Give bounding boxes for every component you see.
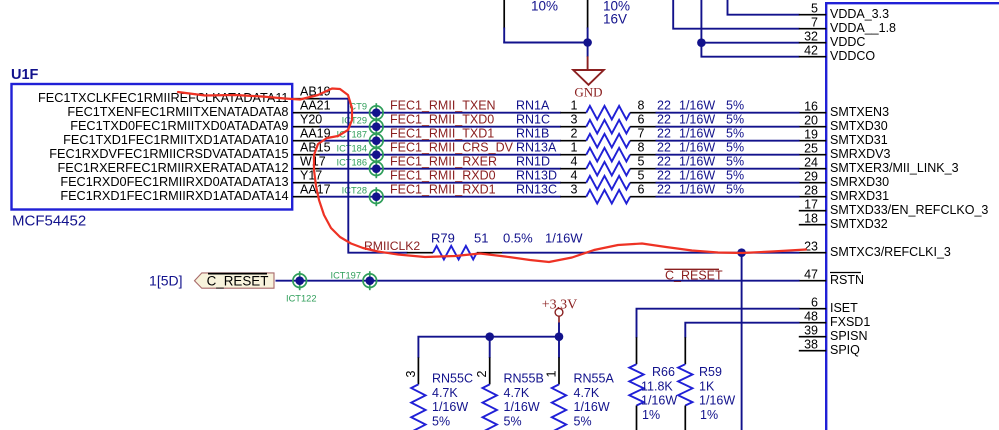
svg-text:7: 7 xyxy=(638,127,645,141)
svg-text:SMTXD32: SMTXD32 xyxy=(830,217,888,231)
svg-text:ICT197: ICT197 xyxy=(331,270,362,280)
svg-text:FEC1_RMII_RXD1: FEC1_RMII_RXD1 xyxy=(390,183,496,197)
U1F reference designator xyxy=(11,67,39,83)
wire net FEC1_RMII_RXD0 xyxy=(320,182,562,184)
svg-text:5: 5 xyxy=(638,169,645,183)
svg-text:22: 22 xyxy=(657,155,671,169)
svg-text:22: 22 xyxy=(657,169,671,183)
svg-text:C_RESET: C_RESET xyxy=(207,274,269,289)
resistor RN1D name label xyxy=(516,155,550,169)
test point ICT28 xyxy=(342,186,383,207)
resistor RN13C name label xyxy=(516,183,557,197)
junction xyxy=(583,38,592,47)
svg-text:1K: 1K xyxy=(699,380,715,394)
net label RMIICLK2 xyxy=(364,239,420,253)
pin 18 SMTXD32 xyxy=(799,212,888,232)
annotation red highlight squiggle xyxy=(178,89,806,263)
U1F pin Y20 FEC1TXD0FEC1RMIITXD0ATADATA9 xyxy=(70,113,322,133)
pin 19 SMTXD31 xyxy=(799,128,888,148)
svg-text:FEC1RXD0FEC1RMIIRXD0ATADATA13: FEC1RXD0FEC1RMIIRXD0ATADATA13 xyxy=(60,175,288,189)
svg-text:VDDC: VDDC xyxy=(830,35,865,49)
test point ICT9 xyxy=(347,102,383,123)
wire net FEC1_RMII_TXD0 xyxy=(320,126,562,128)
resistor RN1D value 22 1/16W 5% xyxy=(657,155,744,169)
svg-text:FEC1_RMII_TXD0: FEC1_RMII_TXD0 xyxy=(390,113,494,127)
svg-text:SMRXD31: SMRXD31 xyxy=(830,189,889,203)
svg-text:5%: 5% xyxy=(726,113,744,127)
svg-text:ICT184: ICT184 xyxy=(337,144,368,154)
pin 16 SMTXEN3 xyxy=(799,100,889,120)
svg-text:5: 5 xyxy=(811,2,818,16)
svg-text:SMTXEN3: SMTXEN3 xyxy=(830,105,889,119)
resistor R66 labels xyxy=(641,365,677,422)
svg-text:GND: GND xyxy=(574,85,602,100)
svg-text:FEC1_RMII_RXD0: FEC1_RMII_RXD0 xyxy=(390,169,496,183)
svg-text:5%: 5% xyxy=(726,127,744,141)
wire xyxy=(656,140,800,142)
svg-text:1[5D]: 1[5D] xyxy=(149,273,182,289)
wire net VDDA__1.8 xyxy=(673,0,799,29)
wire xyxy=(558,323,560,337)
wire xyxy=(418,337,559,358)
svg-text:SMTXD30: SMTXD30 xyxy=(830,119,888,133)
wire xyxy=(741,253,743,430)
svg-text:5%: 5% xyxy=(504,415,522,429)
svg-text:4: 4 xyxy=(571,169,578,183)
resistor RN55A labels xyxy=(574,372,615,429)
svg-text:5%: 5% xyxy=(726,183,744,197)
resistor RN13A value 22 1/16W 5% xyxy=(657,141,744,155)
net label FEC1_RMII_RXER xyxy=(390,155,497,169)
resistor R79 labels R79 51 0.5% 1/16W xyxy=(431,231,583,246)
svg-text:6: 6 xyxy=(638,183,645,197)
svg-text:Y20: Y20 xyxy=(300,113,322,127)
IC U? (PHY) box xyxy=(826,3,999,430)
svg-text:3: 3 xyxy=(404,371,418,378)
pin 42 VDDCO xyxy=(799,44,876,64)
svg-text:5%: 5% xyxy=(574,415,592,429)
U1F pin Y17 FEC1RXD0FEC1RMIIRXD0ATADATA13 xyxy=(60,169,322,189)
pin 29 SMRXD30 xyxy=(799,170,889,190)
svg-text:11.8K: 11.8K xyxy=(641,380,673,394)
svg-text:6: 6 xyxy=(811,296,818,310)
pin 32 VDDC xyxy=(799,30,866,50)
svg-text:RN1C: RN1C xyxy=(516,113,550,127)
svg-text:VDDA_3.3: VDDA_3.3 xyxy=(830,7,889,21)
svg-text:AA21: AA21 xyxy=(300,99,331,113)
wire net FEC1_RMII_CRS_DV xyxy=(320,154,562,156)
component U1F box xyxy=(12,84,293,210)
test point ICT197 xyxy=(331,270,377,290)
resistor RN55C (pin 3) xyxy=(404,357,426,430)
capacitor C? left value label 10% xyxy=(531,0,558,14)
svg-text:7: 7 xyxy=(811,16,818,30)
capacitor C? right value label 10% 16V xyxy=(603,0,630,27)
test point ICT186 xyxy=(337,158,384,179)
svg-text:ICT28: ICT28 xyxy=(342,186,367,196)
svg-text:2: 2 xyxy=(571,127,578,141)
resistor RN1A name label xyxy=(516,99,550,113)
svg-text:1/16W: 1/16W xyxy=(574,400,610,414)
pin 38 SPIQ xyxy=(799,338,860,358)
net label C_RESET xyxy=(665,269,724,283)
junction xyxy=(737,248,746,257)
junction xyxy=(485,332,494,341)
U1F pin AB15 FEC1RXDVFEC1RMIICRSDVATADATA15 xyxy=(49,141,330,161)
svg-text:RN13C: RN13C xyxy=(516,183,557,197)
pin 7 VDDA__1.8 xyxy=(799,16,896,36)
svg-text:51: 51 xyxy=(474,231,488,246)
resistor RN1B name label xyxy=(516,127,549,141)
svg-text:C_RESET: C_RESET xyxy=(665,269,723,283)
svg-text:19: 19 xyxy=(804,128,818,142)
svg-text:RN1D: RN1D xyxy=(516,155,550,169)
junction xyxy=(555,332,564,341)
svg-text:8: 8 xyxy=(638,141,645,155)
svg-text:RN55B: RN55B xyxy=(504,372,544,386)
svg-text:FEC1_RMII_RXER: FEC1_RMII_RXER xyxy=(390,155,497,169)
svg-text:FEC1TXD0FEC1RMIITXD0ATADATA9: FEC1TXD0FEC1RMIITXD0ATADATA9 xyxy=(70,119,288,133)
resistor RN1A xyxy=(560,99,656,120)
net label FEC1_RMII_TXD0 xyxy=(390,113,494,127)
svg-text:RN1B: RN1B xyxy=(516,127,549,141)
svg-text:5%: 5% xyxy=(726,169,744,183)
pin 6 ISET xyxy=(799,296,858,316)
svg-text:FEC1RXERFEC1RMIIRXERATADATA12: FEC1RXERFEC1RMIIRXERATADATA12 xyxy=(58,161,289,175)
resistor R79 xyxy=(407,246,503,260)
wire xyxy=(656,196,800,198)
svg-text:1: 1 xyxy=(571,99,578,113)
pin 47 RSTN xyxy=(799,268,864,288)
U1F pin AA17 FEC1RXD1FEC1RMIIRXD1ATADATA14 xyxy=(60,183,330,203)
svg-text:2: 2 xyxy=(475,371,489,378)
svg-text:4: 4 xyxy=(571,155,578,169)
wire xyxy=(656,112,800,114)
resistor RN55A (pin 1) xyxy=(545,357,567,430)
svg-text:1: 1 xyxy=(545,371,559,378)
svg-text:4.7K: 4.7K xyxy=(432,386,458,400)
svg-text:10%: 10% xyxy=(531,0,558,14)
U1F pin W17 FEC1RXERFEC1RMIIRXERATADATA12 xyxy=(58,155,326,175)
test point ICT122 xyxy=(286,271,317,303)
resistor RN13A name label xyxy=(516,141,557,155)
resistor RN1A value 22 1/16W 5% xyxy=(657,99,744,113)
wire net C_RESET xyxy=(276,280,800,282)
svg-text:R66: R66 xyxy=(652,365,675,379)
U1F pin AA21 FEC1TXENFEC1RMIITXENATADATA8 xyxy=(67,99,330,119)
svg-text:24: 24 xyxy=(804,156,818,170)
svg-text:1/16W: 1/16W xyxy=(641,394,677,408)
resistor R59 xyxy=(678,337,692,430)
wire xyxy=(502,252,800,254)
svg-text:3: 3 xyxy=(571,113,578,127)
U1F part value MCF54452 xyxy=(12,213,86,230)
svg-text:MCF54452: MCF54452 xyxy=(12,213,86,230)
resistor RN1D xyxy=(560,155,656,176)
wire net FEC1_RMII_RXER xyxy=(320,168,562,170)
svg-text:ICT29: ICT29 xyxy=(342,116,367,126)
svg-text:48: 48 xyxy=(804,310,818,324)
net label FEC1_RMII_TXD1 xyxy=(390,127,494,141)
svg-text:22: 22 xyxy=(657,99,671,113)
wire xyxy=(656,182,800,184)
svg-text:17: 17 xyxy=(804,198,818,212)
resistor R59 labels xyxy=(699,365,735,422)
svg-text:28: 28 xyxy=(804,184,818,198)
svg-text:FEC1RXDVFEC1RMIICRSDVATADATA15: FEC1RXDVFEC1RMIICRSDVATADATA15 xyxy=(49,147,288,161)
svg-text:1/16W: 1/16W xyxy=(432,400,468,414)
pin 48 FXSD1 xyxy=(799,310,871,330)
U1F pin AB19 FEC1TXCLKFEC1RMIIREFCLKATADATA11 xyxy=(38,85,331,105)
svg-text:FEC1TXD1FEC1RMIITXD1ATADATA10: FEC1TXD1FEC1RMIITXD1ATADATA10 xyxy=(63,133,288,147)
svg-text:8: 8 xyxy=(638,99,645,113)
svg-text:RSTN: RSTN xyxy=(830,273,864,287)
svg-text:32: 32 xyxy=(804,30,818,44)
resistor RN13D name label xyxy=(516,169,557,183)
svg-text:RN1A: RN1A xyxy=(516,99,550,113)
svg-text:16V: 16V xyxy=(603,12,627,27)
resistor RN55B labels xyxy=(504,372,544,429)
pin 24 SMTXER3/MII_LINK_3 xyxy=(799,156,959,176)
resistor RN13C xyxy=(560,183,656,204)
resistor RN13D value 22 1/16W 5% xyxy=(657,169,744,183)
svg-text:5%: 5% xyxy=(726,99,744,113)
svg-text:1%: 1% xyxy=(700,408,718,422)
svg-text:SMTXD33/EN_REFCLKO_3: SMTXD33/EN_REFCLKO_3 xyxy=(830,203,988,217)
wire net RMIICLK2 xyxy=(320,99,408,253)
svg-text:6: 6 xyxy=(638,113,645,127)
wire xyxy=(503,28,505,44)
svg-text:RN55A: RN55A xyxy=(574,372,615,386)
net label FEC1_RMII_RXD0 xyxy=(390,169,496,183)
resistor RN1C xyxy=(560,113,656,134)
resistor RN13D xyxy=(560,169,656,190)
svg-text:SMTXC3/REFCLKI_3: SMTXC3/REFCLKI_3 xyxy=(830,245,951,259)
svg-text:22: 22 xyxy=(657,113,671,127)
wire xyxy=(701,42,799,44)
resistor RN1B xyxy=(560,127,656,148)
svg-text:42: 42 xyxy=(804,44,818,58)
wire xyxy=(558,337,560,358)
svg-text:SMTXD31: SMTXD31 xyxy=(830,133,888,147)
svg-text:18: 18 xyxy=(804,212,818,226)
resistor R66 xyxy=(629,337,643,430)
svg-text:47: 47 xyxy=(804,268,818,282)
svg-text:RN13A: RN13A xyxy=(516,141,557,155)
wire xyxy=(587,28,589,57)
off-page connector C_RESET xyxy=(195,273,275,289)
svg-text:1/16W: 1/16W xyxy=(504,400,540,414)
svg-text:1/16W: 1/16W xyxy=(545,231,583,246)
svg-text:FEC1_RMII_TXEN: FEC1_RMII_TXEN xyxy=(390,99,496,113)
svg-text:1/16W: 1/16W xyxy=(679,169,715,183)
svg-text:1: 1 xyxy=(571,141,578,155)
svg-text:1/16W: 1/16W xyxy=(679,183,715,197)
resistor RN55B (pin 2) xyxy=(475,357,497,430)
svg-text:SPISN: SPISN xyxy=(830,329,868,343)
wire net VDDA_3.3 xyxy=(728,0,800,15)
svg-text:FXSD1: FXSD1 xyxy=(830,315,870,329)
test point ICT187 xyxy=(337,130,384,151)
svg-text:4.7K: 4.7K xyxy=(574,386,600,400)
wire net FEC1_RMII_TXD1 xyxy=(320,140,562,142)
svg-text:U1F: U1F xyxy=(11,67,39,83)
svg-text:SMTXER3/MII_LINK_3: SMTXER3/MII_LINK_3 xyxy=(830,161,959,175)
svg-text:FEC1RXD1FEC1RMIIRXD1ATADATA14: FEC1RXD1FEC1RMIIRXD1ATADATA14 xyxy=(60,189,288,203)
svg-text:SMRXD30: SMRXD30 xyxy=(830,175,889,189)
svg-text:RN55C: RN55C xyxy=(432,372,473,386)
pin 20 SMTXD30 xyxy=(799,114,888,134)
capacitor C? right pin (cropped) xyxy=(587,0,589,29)
test point ICT184 xyxy=(337,144,384,165)
svg-text:1/16W: 1/16W xyxy=(699,394,735,408)
svg-text:Y17: Y17 xyxy=(300,169,322,183)
svg-text:VDDCO: VDDCO xyxy=(830,49,875,63)
svg-text:1/16W: 1/16W xyxy=(679,127,715,141)
svg-text:R79: R79 xyxy=(431,231,455,246)
svg-text:ICT122: ICT122 xyxy=(286,294,317,304)
U1F pin AA19 FEC1TXD1FEC1RMIITXD1ATADATA10 xyxy=(63,127,331,147)
wire xyxy=(656,168,800,170)
test point ICT29 xyxy=(342,116,383,137)
wire xyxy=(503,42,588,44)
svg-text:38: 38 xyxy=(804,338,818,352)
svg-text:29: 29 xyxy=(804,170,818,184)
resistor RN1B value 22 1/16W 5% xyxy=(657,127,744,141)
svg-text:16: 16 xyxy=(804,100,818,114)
wire xyxy=(656,126,800,128)
ground GND xyxy=(573,56,604,99)
resistor RN1C value 22 1/16W 5% xyxy=(657,113,744,127)
wire net VDDC/VDDCO xyxy=(701,0,799,57)
svg-text:1/16W: 1/16W xyxy=(679,113,715,127)
wire xyxy=(489,337,491,358)
pin 28 SMRXD31 xyxy=(799,184,889,204)
svg-text:3: 3 xyxy=(571,183,578,197)
net label FEC1_RMII_RXD1 xyxy=(390,183,496,197)
wire xyxy=(656,154,800,156)
svg-text:0.5%: 0.5% xyxy=(503,231,533,246)
resistor RN55C labels xyxy=(432,372,473,429)
svg-text:22: 22 xyxy=(657,141,671,155)
svg-text:SPIQ: SPIQ xyxy=(830,343,860,357)
svg-text:22: 22 xyxy=(657,183,671,197)
svg-text:ICT186: ICT186 xyxy=(337,158,368,168)
resistor RN13C value 22 1/16W 5% xyxy=(657,183,744,197)
svg-text:1/16W: 1/16W xyxy=(679,99,715,113)
wire net FEC1_RMII_RXD1 xyxy=(320,196,562,198)
off-page reference 1[5D] xyxy=(149,273,182,289)
svg-text:SMRXDV3: SMRXDV3 xyxy=(830,147,890,161)
svg-text:20: 20 xyxy=(804,114,818,128)
svg-text:23: 23 xyxy=(804,240,818,254)
svg-text:5: 5 xyxy=(638,155,645,169)
net label FEC1_RMII_CRS_DV xyxy=(390,141,514,155)
pin 39 SPISN xyxy=(799,324,868,344)
wire net FEC1_RMII_TXEN xyxy=(320,112,562,114)
resistor RN1C name label xyxy=(516,113,550,127)
svg-text:VDDA__1.8: VDDA__1.8 xyxy=(830,21,896,35)
wire net ISET xyxy=(637,309,800,338)
resistor RN13A xyxy=(560,141,656,162)
svg-text:4.7K: 4.7K xyxy=(504,386,530,400)
power +3.3V xyxy=(542,297,578,323)
svg-text:39: 39 xyxy=(804,324,818,338)
svg-text:5%: 5% xyxy=(726,155,744,169)
pin 17 SMTXD33/EN_REFCLKO_3 xyxy=(799,198,989,218)
svg-text:FEC1_RMII_TXD1: FEC1_RMII_TXD1 xyxy=(390,127,494,141)
svg-text:1/16W: 1/16W xyxy=(679,155,715,169)
capacitor C? left pin (cropped) xyxy=(503,0,505,29)
svg-text:W17: W17 xyxy=(300,155,326,169)
svg-text:22: 22 xyxy=(657,127,671,141)
svg-text:1/16W: 1/16W xyxy=(679,141,715,155)
svg-text:RN13D: RN13D xyxy=(516,169,557,183)
pin 5 VDDA_3.3 xyxy=(799,2,889,22)
svg-text:1%: 1% xyxy=(642,408,660,422)
junction xyxy=(697,38,706,47)
svg-text:ISET: ISET xyxy=(830,301,858,315)
wire net FXSD1 xyxy=(685,323,799,338)
svg-text:5%: 5% xyxy=(432,415,450,429)
svg-text:FEC1TXENFEC1RMIITXENATADATA8: FEC1TXENFEC1RMIITXENATADATA8 xyxy=(67,105,288,119)
pin 23 SMTXC3/REFCLKI_3 xyxy=(799,240,951,260)
svg-text:25: 25 xyxy=(804,142,818,156)
svg-text:R59: R59 xyxy=(699,365,722,379)
svg-text:FEC1_RMII_CRS_DV: FEC1_RMII_CRS_DV xyxy=(390,141,514,155)
pin 25 SMRXDV3 xyxy=(799,142,891,162)
net label FEC1_RMII_TXEN xyxy=(390,99,496,113)
svg-text:5%: 5% xyxy=(726,141,744,155)
svg-text:FEC1TXCLKFEC1RMIIREFCLKATADATA: FEC1TXCLKFEC1RMIIREFCLKATADATA11 xyxy=(38,91,289,105)
